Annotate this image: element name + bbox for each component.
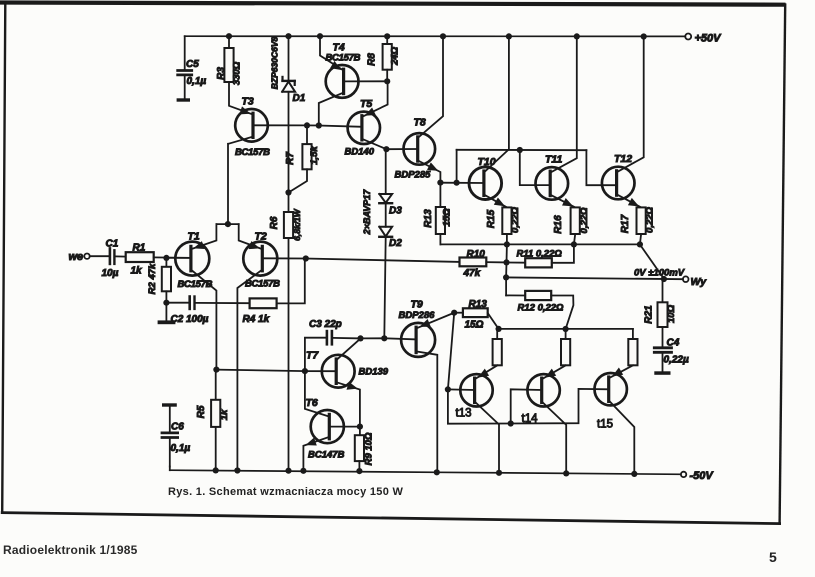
- wire to D2 node: [361, 337, 385, 339]
- svg-text:24Ω: 24Ω: [390, 46, 401, 66]
- svg-text:T6: T6: [306, 397, 318, 409]
- svg-text:BC147B: BC147B: [308, 450, 345, 461]
- svg-text:10Ω: 10Ω: [666, 304, 677, 323]
- wire C1 to R1: [116, 255, 126, 257]
- lower base bus: [448, 389, 609, 424]
- diode D3 BAVP17: [385, 149, 387, 194]
- svg-text:T9: T9: [411, 299, 423, 311]
- svg-text:T11: T11: [545, 154, 562, 166]
- svg-text:T12: T12: [614, 153, 632, 165]
- node R2/C2: [163, 300, 169, 306]
- svg-text:1,5k: 1,5k: [309, 146, 320, 165]
- svg-text:D2: D2: [389, 238, 402, 249]
- resistor R13 (driver emitter 15Ω): [439, 183, 441, 207]
- svg-text:0,22Ω: 0,22Ω: [510, 206, 521, 232]
- resistor R17 0,22Ω: [637, 207, 646, 234]
- svg-text:R16: R16: [553, 215, 564, 234]
- svg-text:R2 47k: R2 47k: [147, 263, 158, 294]
- capacitor C4: [662, 327, 664, 347]
- node T1 collector/R5: [213, 367, 219, 373]
- svg-text:15Ω: 15Ω: [442, 208, 453, 227]
- svg-text:R7: R7: [285, 152, 296, 165]
- wire node down to output line: [505, 262, 507, 277]
- resistor R15 0,22Ω: [502, 207, 511, 234]
- ground stub below R2: [165, 303, 167, 321]
- node t13 base: [445, 386, 451, 392]
- wire R4 up to T2 base node: [277, 259, 305, 304]
- resistor R16 0,22Ω: [571, 207, 580, 234]
- capacitor C6: [162, 403, 177, 406]
- svg-text:T10: T10: [478, 156, 496, 168]
- capacitor C2: [188, 297, 191, 309]
- node T5 collector/T8 base/D3: [383, 146, 389, 152]
- border frame top bar: [0, 0, 786, 6]
- svg-text:1k: 1k: [219, 409, 230, 420]
- svg-text:D3: D3: [389, 206, 402, 217]
- border frame left edge: [2, 3, 5, 513]
- output terminal Wy: [683, 276, 689, 282]
- svg-text:0,1µ: 0,1µ: [171, 443, 191, 454]
- node T4 emitter on +rail: [317, 33, 323, 39]
- svg-text:R9 10Ω: R9 10Ω: [364, 432, 375, 465]
- node R1/R2/T1: [163, 255, 169, 261]
- wire D2 to T9 base line: [384, 237, 385, 338]
- svg-text:t14: t14: [522, 413, 539, 425]
- resistor R10 47k: [460, 258, 487, 267]
- node D2/T9 base: [381, 335, 387, 341]
- svg-text:T7: T7: [306, 350, 319, 362]
- resistor R6: [288, 193, 290, 213]
- node T4 collector on T3 base line: [316, 122, 322, 128]
- node R10/R11: [503, 259, 509, 265]
- wire T8 emitter to T10 base: [440, 182, 484, 184]
- svg-text:1k: 1k: [131, 266, 143, 277]
- border frame right edge: [780, 5, 786, 524]
- transistor t14: [527, 374, 559, 406]
- node R21 top on output line: [661, 276, 667, 282]
- svg-text:R6: R6: [269, 216, 280, 229]
- diode D2 BAVP17: [385, 203, 387, 227]
- emitter summing rail: [440, 243, 640, 245]
- transistor T1 BC157B: [175, 242, 209, 276]
- node branch to T11/T12 drive line: [454, 180, 460, 186]
- svg-text:C3 22p: C3 22p: [309, 319, 342, 330]
- resistor R7: [306, 125, 308, 144]
- svg-text:R5: R5: [196, 405, 207, 418]
- transistor T6 BC147B: [311, 410, 344, 443]
- wire rail to output line: [640, 245, 664, 279]
- wire T1 collector line to T7 base: [216, 370, 305, 372]
- svg-text:0,1µ: 0,1µ: [187, 76, 207, 87]
- emitter resistor t15: [632, 329, 634, 339]
- svg-text:C6: C6: [171, 422, 184, 433]
- wire T2 base to R10: [306, 259, 460, 262]
- node T8 emitter: [437, 180, 443, 186]
- svg-text:R12 0,22Ω: R12 0,22Ω: [518, 303, 565, 314]
- +50V supply rail: [185, 35, 686, 37]
- svg-text:-50V: -50V: [690, 470, 715, 482]
- node D1 on +rail: [285, 33, 291, 39]
- lower bank emitter bus: [499, 328, 633, 330]
- svg-text:C2: C2: [171, 314, 184, 325]
- transistor T11: [536, 167, 569, 200]
- transistor T12: [602, 167, 635, 200]
- svg-text:t15: t15: [597, 419, 613, 431]
- output line to Wy: [506, 277, 683, 279]
- svg-text:BC157B: BC157B: [245, 279, 280, 290]
- svg-text:T2: T2: [255, 231, 267, 243]
- svg-text:we: we: [69, 251, 84, 263]
- wire T11 base: [520, 150, 550, 185]
- transistor T8 BDP285: [404, 133, 436, 165]
- wire to C2: [166, 302, 188, 304]
- wire t14 base: [511, 389, 542, 423]
- resistor R9 10Ω: [359, 427, 361, 436]
- svg-text:R21: R21: [644, 305, 655, 324]
- resistor R3: [228, 36, 230, 48]
- wire C2 to R4: [196, 302, 250, 304]
- -50V supply rail: [170, 470, 681, 474]
- resistor R13 15Ω (lower): [454, 312, 463, 314]
- wire node up to emitter rail: [506, 244, 508, 262]
- zener diode D1 BZP630C6V8: [288, 36, 290, 80]
- svg-text:10µ: 10µ: [102, 268, 119, 279]
- resistor R12 0,22Ω: [505, 277, 507, 295]
- input terminal we: [84, 254, 89, 259]
- node R7 top: [304, 122, 310, 128]
- svg-text:0,22Ω: 0,22Ω: [645, 206, 656, 232]
- node T7 base junction: [302, 368, 308, 374]
- svg-text:T3: T3: [242, 96, 254, 108]
- node R9 top/T6 base/T7 emitter: [357, 424, 363, 430]
- svg-text:6,8k/1W: 6,8k/1W: [292, 208, 302, 241]
- wire R1 to T1 base: [154, 256, 191, 259]
- node T7 collector on compensation line: [357, 335, 363, 341]
- svg-text:R8: R8: [367, 53, 378, 66]
- svg-text:BC157B: BC157B: [235, 147, 270, 158]
- node T2 base: [303, 255, 309, 261]
- svg-text:BDP286: BDP286: [399, 310, 436, 321]
- svg-text:C1: C1: [106, 239, 119, 250]
- node T9 emitter/R13: [451, 310, 457, 316]
- node D1/R7/R6: [285, 189, 291, 195]
- node R8/T4 base/T5 emitter: [384, 78, 390, 84]
- svg-text:R13: R13: [469, 299, 488, 310]
- svg-text:BC157B: BC157B: [178, 279, 213, 290]
- svg-text:100µ: 100µ: [186, 314, 209, 325]
- svg-text:R10: R10: [467, 249, 486, 260]
- transistor T9 BDP286: [401, 323, 435, 357]
- transistor T5 BD140: [348, 112, 380, 144]
- svg-text:330Ω: 330Ω: [232, 61, 243, 85]
- svg-text:R17: R17: [620, 214, 631, 233]
- wire tail to T3 collector: [227, 144, 229, 224]
- svg-text:R4 1k: R4 1k: [243, 314, 270, 325]
- resistor R8: [384, 33, 390, 39]
- svg-text:R13: R13: [423, 209, 434, 228]
- wire R10 to node: [486, 261, 506, 263]
- svg-text:BD139: BD139: [359, 367, 389, 378]
- resistor R1: [126, 252, 154, 262]
- emitter resistor t14: [565, 329, 567, 339]
- svg-text:0,22µ: 0,22µ: [664, 355, 689, 366]
- -50V terminal: [681, 472, 686, 477]
- resistor R5 1k: [215, 370, 217, 400]
- resistor R4: [250, 298, 277, 308]
- transistor T10: [469, 167, 502, 200]
- wire T12 base: [586, 150, 616, 185]
- transistor t13: [460, 374, 492, 406]
- capacitor C3 22p: [305, 338, 326, 372]
- resistor R2: [165, 258, 167, 267]
- svg-text:BD140: BD140: [345, 147, 375, 158]
- svg-text:+50V: +50V: [695, 33, 723, 45]
- svg-text:D1: D1: [293, 93, 306, 104]
- svg-text:47k: 47k: [463, 268, 481, 279]
- transistor T3 BC157B: [235, 109, 268, 142]
- node R3 on +rail: [226, 33, 232, 39]
- svg-text:T1: T1: [188, 231, 200, 243]
- resistor R21 10Ω: [662, 279, 664, 302]
- svg-text:R3: R3: [216, 67, 227, 80]
- svg-text:BC157B: BC157B: [326, 53, 361, 64]
- svg-text:Wy: Wy: [691, 276, 708, 288]
- node T11 branch: [517, 147, 523, 153]
- drive line to T11/T12: [457, 149, 587, 151]
- svg-text:t13: t13: [456, 408, 472, 420]
- capacitor C1: [109, 248, 112, 264]
- svg-text:0V ±100mV: 0V ±100mV: [634, 268, 685, 279]
- capacitor C5: [184, 36, 186, 69]
- svg-text:BZP630C6V8: BZP630C6V8: [270, 37, 280, 90]
- svg-text:R15: R15: [486, 209, 497, 228]
- node T8 collector on +rail: [440, 33, 446, 39]
- wire T9 emitter node to t13 base: [448, 313, 454, 390]
- transistor t15: [595, 373, 627, 405]
- rail junction dots: [213, 467, 219, 473]
- transistor T2 BC157B: [243, 242, 277, 276]
- svg-text:T8: T8: [414, 117, 426, 129]
- wire we to C1: [90, 255, 109, 257]
- svg-text:T5: T5: [360, 98, 372, 110]
- transistor T4 BC157B: [326, 65, 359, 98]
- svg-text:BDP285: BDP285: [395, 170, 432, 181]
- svg-text:R11 0,22Ω: R11 0,22Ω: [517, 249, 563, 260]
- svg-text:C5: C5: [186, 59, 199, 70]
- svg-text:0,22Ω: 0,22Ω: [579, 207, 590, 233]
- svg-text:R1: R1: [133, 243, 146, 254]
- tail junction T1/T2 emitters: [216, 223, 238, 225]
- resistor R11 0,22Ω: [507, 262, 526, 264]
- svg-text:C4: C4: [667, 338, 680, 349]
- border frame bottom edge: [2, 513, 779, 524]
- emitter resistor t13: [496, 329, 498, 339]
- +50V terminal: [685, 34, 691, 40]
- svg-text:2×BAVP17: 2×BAVP17: [362, 189, 372, 236]
- transistor T7 BD139: [322, 355, 355, 388]
- svg-text:15Ω: 15Ω: [465, 320, 484, 331]
